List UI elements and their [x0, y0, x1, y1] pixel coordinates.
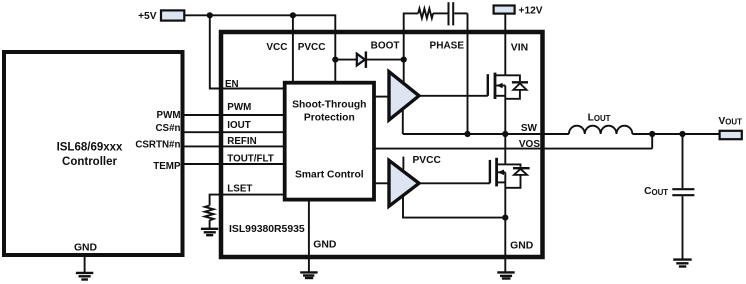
svg-text:GND: GND [313, 240, 337, 251]
wire driver1 output [419, 95, 488, 97]
transistor Q2 body stub [498, 171, 506, 173]
svg-text:TOUT/FLT: TOUT/FLT [227, 154, 273, 165]
driver box U1 outline [221, 32, 543, 257]
wire VIN net [503, 14, 506, 76]
wire Q2 drain to SW [504, 134, 506, 164]
svg-text:CS#n: CS#n [155, 123, 180, 134]
svg-text:Protection: Protection [304, 113, 355, 124]
svg-text:TEMP: TEMP [153, 161, 181, 172]
junction dot PHASE-SW [464, 131, 470, 137]
svg-text:LOUT: LOUT [588, 113, 611, 124]
Q2 body diode [505, 164, 520, 167]
wire BOOT up to RC [404, 13, 419, 59]
svg-text:PWM: PWM [227, 102, 251, 113]
svg-text:GND: GND [74, 242, 98, 253]
wire GND pin right [504, 218, 506, 273]
ground COUT [673, 258, 692, 260]
wire Q2 source to GND [504, 182, 506, 217]
wire RLSET to ground [209, 220, 211, 229]
capacitor COUT [682, 134, 684, 188]
wire LOUT to VOUT [632, 133, 719, 135]
resistor RLSET [205, 206, 214, 221]
transistor Q1 gate bar [487, 74, 489, 96]
svg-text:EN: EN [225, 79, 239, 90]
wire driver2 output [419, 182, 490, 184]
ground right GND pin [497, 271, 514, 273]
gate driver low-side [389, 160, 419, 206]
svg-text:+5V: +5V [138, 11, 157, 22]
svg-text:ISL99380R5935: ISL99380R5935 [229, 224, 305, 235]
svg-text:PVCC: PVCC [298, 42, 326, 53]
svg-text:VOS: VOS [519, 139, 540, 150]
wire GND pin left [308, 200, 310, 273]
wire resistor to cap [433, 12, 448, 14]
wire Q1 source to SW [504, 96, 506, 134]
wire driver2 input [374, 182, 389, 184]
ground RLSET [201, 228, 218, 230]
transistor Q2 source stub [498, 181, 506, 183]
junction dot BOOT [401, 57, 407, 63]
boot resistor [418, 9, 433, 19]
wire BOOT to driver [403, 60, 405, 85]
controller box U2 [4, 52, 183, 255]
+5V terminal [161, 10, 184, 20]
transistor Q1 body stub [496, 85, 505, 87]
wire VOS net [374, 134, 652, 149]
svg-text:Shoot-Through: Shoot-Through [292, 99, 366, 110]
wire diode cathode to BOOT [366, 59, 404, 61]
svg-text:COUT: COUT [644, 186, 668, 197]
junction dot Q2 source return [502, 215, 508, 221]
wire SW net [403, 133, 569, 135]
wire LSET net [210, 195, 285, 206]
svg-text:Controller: Controller [62, 156, 117, 168]
transistor Q1 source stub [496, 95, 505, 97]
svg-text:REFIN: REFIN [227, 136, 256, 147]
ground controller [76, 272, 93, 274]
wire driver1 return stub [402, 108, 404, 135]
wire PVCC net [334, 14, 336, 82]
svg-text:Smart Control: Smart Control [295, 169, 364, 180]
junction dot VOS sense [649, 131, 655, 137]
ground left GND pin [300, 271, 317, 273]
boot diode [357, 54, 365, 66]
wire cap to PHASE [454, 12, 467, 14]
+12V terminal [494, 6, 515, 14]
svg-text:CSRTN#n: CSRTN#n [135, 139, 180, 150]
wire +5V rail [184, 14, 335, 16]
wire PVCC stub [402, 157, 404, 170]
wire IOUT net [183, 131, 285, 133]
junction dot COUT tap [679, 131, 685, 137]
svg-text:IOUT: IOUT [227, 120, 250, 131]
svg-text:PWM: PWM [157, 110, 181, 121]
wire VCC net [292, 15, 294, 82]
boot capacitor [448, 2, 450, 25]
wire diode anode [335, 59, 357, 61]
control block [285, 83, 374, 200]
wire controller GND [84, 257, 86, 273]
junction dot EN tap [207, 12, 213, 18]
inductor LOUT [569, 126, 632, 134]
wire EN net [210, 15, 285, 88]
junction dot boot diode tap [332, 57, 338, 63]
wire PWM net [183, 114, 285, 116]
svg-text:PHASE: PHASE [430, 41, 465, 52]
svg-text:SW: SW [521, 123, 538, 134]
VOUT terminal [720, 131, 742, 139]
svg-text:PVCC: PVCC [413, 155, 442, 166]
svg-text:GND: GND [510, 241, 534, 252]
transistor Q1 channel bar [494, 73, 497, 99]
svg-text:VCC: VCC [266, 42, 287, 53]
wire driver1 input [374, 96, 389, 98]
transistor Q2 channel bar [495, 158, 498, 187]
svg-text:VOUT: VOUT [719, 116, 743, 127]
wire TOUT/FLT net [183, 163, 285, 165]
transistor Q1 drain stub [496, 74, 505, 76]
transistor Q2 gate bar [489, 160, 491, 183]
transistor Q2 drain stub [498, 163, 506, 165]
junction dot VCC tap [290, 12, 296, 18]
svg-text:ISL68/69xxx: ISL68/69xxx [57, 142, 123, 154]
wire PHASE net [467, 13, 469, 134]
wire driver2 return stub [403, 196, 505, 218]
svg-text:+12V: +12V [519, 5, 543, 16]
gate driver high-side [389, 72, 419, 120]
Q1 body diode [505, 75, 520, 81]
svg-text:LSET: LSET [227, 184, 252, 195]
svg-text:BOOT: BOOT [371, 40, 400, 51]
svg-text:VIN: VIN [511, 42, 528, 53]
junction dot Q1-Q2-SW [502, 131, 508, 137]
wire REFIN net [183, 145, 285, 147]
